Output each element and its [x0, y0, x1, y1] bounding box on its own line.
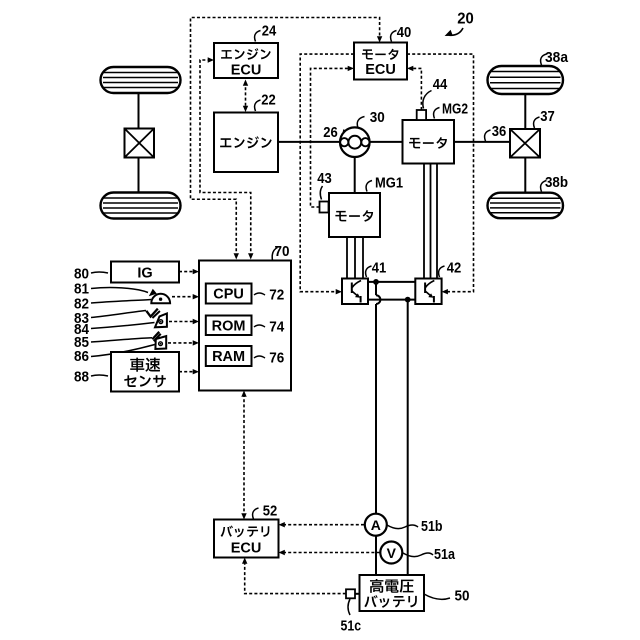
- three-phase wires MG1 to inverter 41: [346, 237, 348, 279]
- voltage sensor 51a (V): [380, 542, 402, 564]
- svg-text:86: 86: [74, 349, 89, 365]
- wheel 38b: [488, 193, 564, 219]
- svg-text:A: A: [371, 517, 381, 533]
- wire shift sensor to HVECU (dashed): [168, 342, 195, 344]
- svg-text:38a: 38a: [545, 50, 569, 66]
- svg-text:IG: IG: [137, 266, 152, 282]
- wire engine to planetary gear: [278, 141, 340, 143]
- front-right wheel: [101, 193, 181, 219]
- svg-text:44: 44: [433, 77, 448, 93]
- motor ECU box 40: [354, 43, 407, 80]
- ROM box 74: [206, 316, 252, 336]
- inverter 42 box: [415, 279, 441, 305]
- svg-text:88: 88: [74, 370, 89, 386]
- motor MG1 box: [329, 193, 380, 237]
- svg-text:52: 52: [263, 504, 278, 520]
- accelerator pedal icon: [151, 294, 170, 303]
- svg-text:81: 81: [74, 282, 89, 298]
- wire planetary gear to MG1: [354, 157, 356, 193]
- RAM box 76: [206, 346, 252, 366]
- engine box 22: [214, 113, 278, 173]
- svg-text:ECU: ECU: [231, 540, 262, 556]
- vehicle speed sensor box 88: [111, 352, 179, 392]
- junction dot on positive bus: [373, 279, 379, 285]
- battery negative wire: [407, 300, 409, 575]
- battery positive wire below ammeter: [375, 536, 377, 575]
- wheel 38a: [488, 66, 564, 94]
- wire HVECU to motor ECU (dashed, bidirectional): [191, 18, 380, 257]
- svg-text:76: 76: [269, 351, 284, 367]
- axle shaft lower: [524, 158, 526, 193]
- svg-text:RAM: RAM: [212, 349, 245, 365]
- svg-text:ROM: ROM: [212, 319, 246, 335]
- svg-text:V: V: [387, 545, 397, 561]
- svg-text:70: 70: [275, 244, 290, 260]
- svg-text:51c: 51c: [341, 619, 362, 635]
- CPU box 72: [206, 284, 252, 304]
- svg-text:20: 20: [457, 11, 474, 28]
- svg-text:42: 42: [447, 261, 462, 277]
- engine ECU box 24: [214, 43, 278, 78]
- wire brake sensor to HVECU (dashed): [169, 321, 195, 323]
- front axle lower shaft: [138, 158, 140, 193]
- planetary gear unit 30: [340, 127, 370, 157]
- wire rotation sensor 44 to motor ECU (dashed): [410, 68, 422, 110]
- svg-text:80: 80: [74, 267, 89, 283]
- svg-text:MG2: MG2: [442, 102, 468, 118]
- inverter 41 box: [342, 279, 368, 305]
- wire HVECU to engine ECU (dashed, bidirectional): [200, 60, 251, 257]
- battery positive wire with crossover hop: [375, 282, 377, 295]
- wire battery sensor 51c to battery ECU (dashed): [245, 561, 346, 594]
- junction dot on negative bus: [405, 297, 411, 303]
- ignition switch box IG 80: [111, 262, 179, 283]
- three-phase wires MG2 to inverter 42: [423, 164, 425, 279]
- rotation sensor 44: [417, 110, 426, 120]
- wire speed sensor to HVECU (dashed): [179, 371, 195, 373]
- HVECU box 70: [199, 261, 291, 391]
- svg-text:MG1: MG1: [375, 176, 403, 192]
- svg-text:74: 74: [269, 320, 284, 336]
- front axle upper shaft: [138, 93, 140, 129]
- DC bus negative wire: [368, 299, 415, 301]
- svg-text:40: 40: [397, 25, 412, 41]
- svg-text:26: 26: [323, 125, 338, 141]
- svg-text:38b: 38b: [545, 175, 568, 191]
- svg-text:ECU: ECU: [365, 62, 396, 78]
- svg-text:72: 72: [269, 288, 284, 304]
- wire MG2 to differential 37: [454, 141, 510, 143]
- svg-text:50: 50: [455, 589, 470, 605]
- wire HVECU to battery ECU (dashed, bidirectional): [243, 394, 245, 517]
- high-voltage battery box 50: [360, 575, 425, 611]
- wire voltage sensor 51a to battery ECU (dashed): [283, 552, 380, 554]
- wire current sensor 51b to battery ECU (dashed): [283, 524, 365, 526]
- svg-text:37: 37: [540, 109, 555, 125]
- differential gear 37: [510, 129, 540, 158]
- svg-text:43: 43: [317, 171, 332, 187]
- wire planetary to MG2: [369, 141, 402, 143]
- motor MG2 box: [403, 120, 455, 164]
- svg-text:41: 41: [372, 261, 387, 277]
- wire accelerator sensor to HVECU (dashed): [172, 296, 195, 298]
- wire motor ECU to inverter 42 (dashed): [407, 54, 474, 292]
- svg-text:36: 36: [492, 124, 507, 140]
- current sensor 51b (A): [365, 514, 387, 536]
- front-left wheel: [101, 67, 181, 93]
- axle shaft upper: [524, 94, 526, 129]
- svg-text:51a: 51a: [434, 547, 456, 563]
- wire rotation sensor 43 to motor ECU (dashed): [311, 68, 352, 207]
- battery ECU box 52: [214, 520, 279, 558]
- wire engine ECU to engine (bidirectional): [245, 82, 247, 109]
- battery sensor 51c: [346, 589, 355, 598]
- wire IG to HVECU (dashed): [179, 271, 195, 273]
- wire motor ECU to inverter 41 (dashed): [300, 54, 354, 292]
- shift lever icon: [155, 336, 166, 349]
- svg-text:22: 22: [261, 93, 276, 109]
- front differential gear box: [125, 129, 155, 158]
- svg-text:ECU: ECU: [231, 63, 262, 79]
- svg-text:51b: 51b: [421, 519, 443, 535]
- svg-text:CPU: CPU: [213, 287, 244, 303]
- svg-text:30: 30: [370, 110, 385, 126]
- brake pedal icon: [155, 314, 167, 328]
- rotation sensor 43: [320, 202, 329, 213]
- DC bus positive wire: [368, 281, 415, 283]
- svg-text:24: 24: [262, 24, 277, 40]
